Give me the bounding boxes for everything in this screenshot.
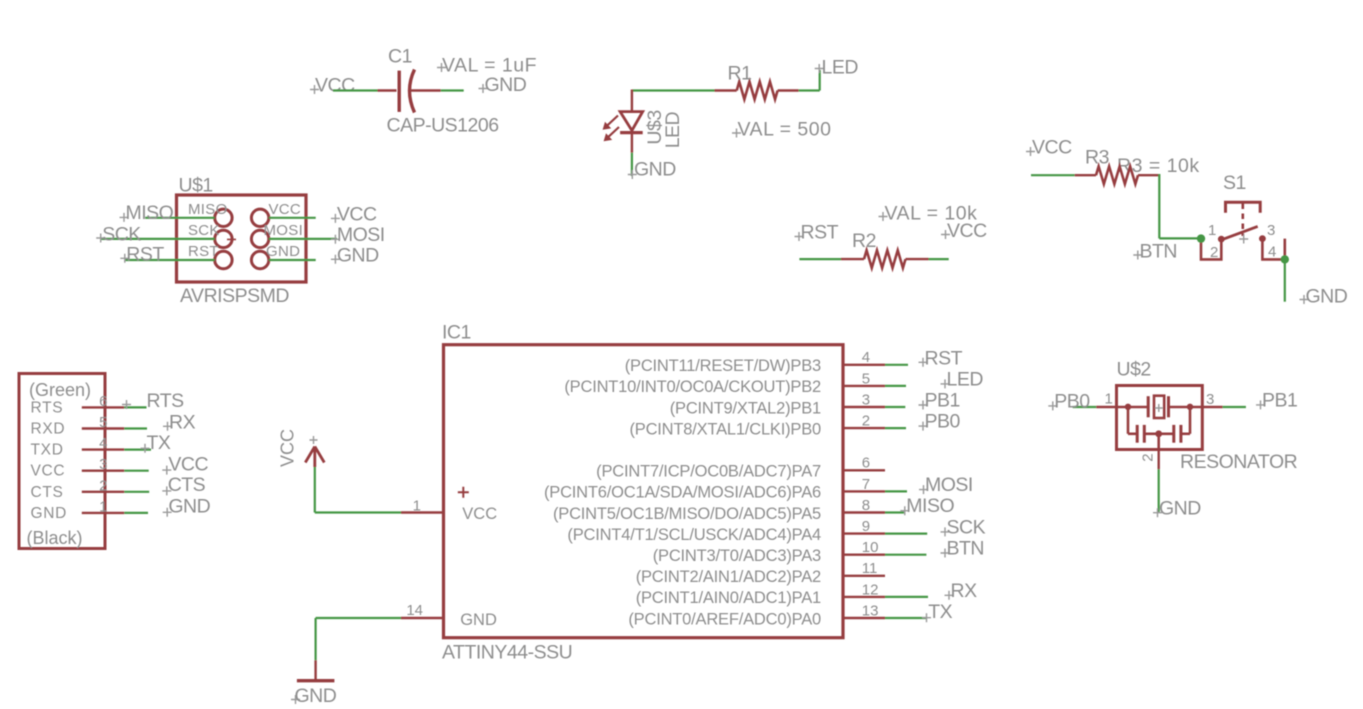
wire VCC to IC1 pin1: [315, 467, 401, 513]
connector U$1 body: [177, 195, 307, 282]
svg-text:7: 7: [862, 476, 870, 493]
wire IC1 pin 2: [885, 427, 906, 429]
pin number 3 (FTDI): [99, 456, 107, 473]
IC1 pin 11 stub: [843, 575, 885, 577]
pin number 1 (U$2): [1105, 391, 1113, 408]
svg-text:3: 3: [1206, 391, 1214, 408]
IC1 pin 10 stub: [843, 554, 885, 556]
svg-text:13: 13: [862, 602, 879, 619]
U$1 pad circle left 2: [215, 230, 232, 247]
net label LED (R1 right): [815, 57, 859, 79]
resistor R2: [841, 250, 929, 268]
capacitor C1: [378, 70, 441, 113]
label ATTINY44-SSU: [442, 642, 572, 664]
wire FTDI pin 3: [124, 470, 148, 472]
net label LED (IC1): [941, 368, 984, 390]
svg-text:VCC: VCC: [269, 201, 302, 218]
FTDI pin name GND: [31, 505, 68, 522]
svg-text:PB0: PB0: [1054, 390, 1090, 412]
U$2 pin 1 stub: [1096, 406, 1116, 408]
wire IC1 pin 10: [885, 554, 926, 556]
svg-text:VCC: VCC: [168, 453, 208, 475]
svg-text:VCC: VCC: [278, 429, 298, 467]
label U$3: [644, 110, 666, 144]
svg-text:AVRISPSMD: AVRISPSMD: [180, 285, 289, 307]
pin number 14 (IC1): [406, 602, 423, 619]
wire LED to GND: [631, 153, 633, 176]
net label SCK (IC1): [941, 516, 986, 538]
svg-text:1: 1: [1105, 391, 1113, 408]
svg-text:VCC: VCC: [315, 75, 355, 97]
FTDI pin name TXD: [31, 442, 64, 459]
pin number 5 (FTDI): [99, 414, 107, 431]
IC1 pin 4 stub: [843, 364, 885, 366]
svg-text:VCC: VCC: [337, 203, 377, 225]
wire IC1 pin 9: [885, 532, 927, 534]
S1 pin1-2 link: [1201, 239, 1221, 260]
U$1 pin name VCC: [269, 201, 302, 218]
svg-text:GND: GND: [168, 496, 210, 518]
svg-text:RX: RX: [951, 580, 978, 602]
pin number 7 (IC1): [862, 476, 870, 493]
net label GND (U$1): [331, 244, 379, 266]
wire U$2 to PB1: [1223, 406, 1246, 408]
U$1 pad circle right 2: [251, 230, 268, 247]
pin number 1 (S1): [1208, 222, 1216, 239]
svg-text:MISO: MISO: [126, 202, 174, 224]
svg-text:(PCINT3/T0/ADC3)PA3: (PCINT3/T0/ADC3)PA3: [653, 547, 821, 565]
svg-text:MOSI: MOSI: [337, 224, 385, 246]
pin number 11 (IC1): [862, 560, 878, 577]
wire R2 to VCC: [929, 258, 949, 260]
svg-text:4: 4: [862, 349, 870, 366]
IC1 pin name VCC: [458, 487, 497, 523]
pin number 1 (IC1): [413, 498, 421, 515]
svg-text:(PCINT11/RESET/DW)PB3: (PCINT11/RESET/DW)PB3: [625, 357, 821, 375]
U$1 pad circle left 3: [215, 251, 232, 268]
svg-text:GND: GND: [634, 159, 676, 181]
wire RST to R2: [799, 258, 841, 260]
FTDI pin 2 stub: [82, 491, 125, 493]
IC1 pin name PA0: [628, 610, 821, 628]
pin number 1 (FTDI): [99, 498, 107, 515]
resistor R3: [1075, 166, 1160, 184]
IC1 pin name PA5: [553, 505, 821, 523]
svg-text:VAL = 500: VAL = 500: [738, 119, 832, 141]
svg-text:VCC: VCC: [31, 463, 66, 480]
net label PB0 (U$2): [1048, 390, 1090, 412]
IC1 pin name PA3: [653, 547, 821, 565]
ground GND symbol: [297, 660, 335, 680]
svg-text:12: 12: [862, 581, 879, 598]
net label MISO (IC1): [900, 495, 954, 517]
FTDI pin 5 stub: [82, 427, 125, 429]
label R1: [728, 63, 752, 85]
FTDI pin 3 stub: [82, 470, 125, 472]
wire IC1 pin 13: [885, 617, 927, 619]
pin number 4 (IC1): [862, 349, 870, 366]
svg-text:6: 6: [99, 393, 107, 410]
IC1 pin 8 stub: [843, 511, 885, 513]
svg-text:4: 4: [99, 435, 107, 452]
label LED: [662, 111, 684, 148]
U$1 pad circle right 1: [251, 209, 268, 226]
svg-text:RESONATOR: RESONATOR: [1180, 451, 1298, 473]
wire S1 to GND: [1284, 259, 1286, 301]
svg-text:GND: GND: [31, 505, 68, 522]
FTDI pin 1 stub: [82, 512, 125, 514]
svg-text:SCK: SCK: [102, 223, 141, 245]
value VAL = 10k (R2): [879, 203, 978, 225]
svg-text:LED: LED: [662, 111, 684, 148]
svg-text:CAP-US1206: CAP-US1206: [387, 115, 499, 137]
U$1 pin name RST: [188, 243, 219, 260]
wire IC1 pin 4: [885, 364, 908, 366]
net label SCK (U$1): [96, 223, 141, 245]
svg-text:GND: GND: [337, 244, 379, 266]
LED U$3: [620, 90, 643, 153]
pin number 2 (S1): [1210, 244, 1218, 261]
pin number 4 (FTDI): [99, 435, 107, 452]
svg-text:GND: GND: [1306, 286, 1348, 308]
svg-text:RX: RX: [169, 411, 196, 433]
svg-text:VCC: VCC: [1032, 137, 1072, 159]
svg-text:MISO: MISO: [188, 201, 228, 218]
IC1 pin name PA4: [567, 526, 821, 544]
net label GND (LED): [628, 159, 676, 181]
wire R1 to LED label: [799, 70, 820, 91]
svg-text:RST: RST: [925, 347, 963, 369]
svg-text:10: 10: [862, 539, 879, 556]
wire IC1 pin 8: [885, 511, 904, 513]
svg-text:RST: RST: [126, 243, 164, 265]
wire PB0 to U$2: [1073, 406, 1097, 408]
IC1 pin name PA2: [636, 568, 821, 586]
pin number 13 (IC1): [862, 602, 879, 619]
connector FTDI body: [19, 374, 105, 549]
svg-text:4: 4: [1268, 244, 1276, 261]
svg-text:2: 2: [862, 413, 870, 430]
svg-text:MISO: MISO: [906, 495, 954, 517]
svg-text:GND: GND: [266, 243, 300, 260]
U$1 origin cross: [227, 235, 236, 244]
FTDI pin name RTS: [31, 399, 64, 416]
svg-text:GND: GND: [460, 611, 497, 629]
svg-text:TXD: TXD: [31, 442, 64, 459]
label GND (supply): [291, 685, 337, 707]
IC1 pin 13 stub: [843, 617, 885, 619]
svg-text:(PCINT9/XTAL2)PB1: (PCINT9/XTAL2)PB1: [670, 399, 821, 417]
value VAL = 1uF: [437, 55, 537, 77]
U$1 pad circle left 1: [215, 209, 232, 226]
net label GND (FTDI): [163, 496, 211, 518]
svg-text:(PCINT1/AIN0/ADC1)PA1: (PCINT1/AIN0/ADC1)PA1: [636, 589, 821, 607]
IC1 pin 9 stub: [843, 532, 885, 534]
FTDI pin 4 stub: [82, 448, 125, 450]
U$1 pin name MOSI: [264, 222, 304, 239]
svg-text:(Green): (Green): [29, 380, 91, 400]
svg-text:1: 1: [99, 498, 107, 515]
pin number 12 (IC1): [862, 581, 879, 598]
svg-text:SCK: SCK: [188, 222, 220, 239]
label U$1: [179, 175, 213, 197]
wire LED node: [632, 89, 715, 91]
S1 pin3-4 link: [1262, 239, 1284, 260]
label (Green): [29, 380, 91, 400]
wire IC1 pin14 to GND: [316, 618, 401, 660]
wire C1 to GND: [441, 89, 464, 91]
IC1 pin name PB0: [629, 420, 821, 438]
net label RST (R2 left): [795, 222, 839, 244]
wire VCC to R3: [1031, 174, 1075, 176]
junction BTN (S1 pin1): [1197, 234, 1205, 242]
wire RST to U$1: [125, 259, 215, 261]
wire VCC to C1: [333, 89, 378, 91]
junction GND (S1 pin4): [1281, 255, 1289, 263]
net label TX (FTDI): [141, 432, 171, 454]
svg-text:BTN: BTN: [1140, 241, 1178, 263]
net label CTS (FTDI): [162, 474, 205, 496]
switch S1 contact: [1218, 226, 1266, 242]
net label GND (C1 right): [479, 74, 527, 96]
wire R3 to BTN node: [1159, 174, 1201, 238]
svg-text:VCC: VCC: [947, 220, 987, 242]
net label VCC (U$1): [331, 203, 377, 225]
label RESONATOR: [1180, 451, 1298, 473]
resonator U$2 body: [1117, 386, 1203, 450]
svg-text:R3: R3: [1085, 147, 1109, 169]
label C1: [388, 46, 412, 68]
U$2 pin 3 stub: [1202, 406, 1222, 408]
IC1 pin name PA6: [544, 484, 821, 502]
svg-text:5: 5: [99, 414, 107, 431]
label CAP-US1206: [387, 115, 499, 137]
FTDI pin 6 stub: [82, 406, 125, 408]
net label RST (U$1): [120, 243, 164, 265]
net label RX (IC1): [945, 580, 978, 602]
svg-text:5: 5: [862, 370, 870, 387]
svg-text:(PCINT0/AREF/ADC0)PA0: (PCINT0/AREF/ADC0)PA0: [628, 610, 821, 628]
label R2: [852, 230, 876, 252]
wire U$1 to MOSI: [269, 238, 337, 240]
net label BTN: [1133, 241, 1177, 263]
IC1 pin 2 stub: [843, 427, 885, 429]
pin number 6 (IC1): [862, 455, 870, 472]
svg-text:RST: RST: [188, 243, 219, 260]
svg-text:MOSI: MOSI: [925, 474, 973, 496]
U$2 pin 2 stub: [1157, 450, 1159, 470]
svg-text:3: 3: [862, 391, 870, 408]
IC1 pin name PB3: [625, 357, 821, 375]
svg-text:(Black): (Black): [27, 528, 83, 548]
svg-text:RTS: RTS: [147, 390, 185, 412]
value VAL = 500 (R1): [732, 119, 831, 141]
label (Black): [27, 528, 83, 548]
svg-text:U$2: U$2: [1117, 359, 1151, 381]
U$1 pad circle right 3: [251, 251, 268, 268]
net label MOSI (U$1): [331, 224, 385, 246]
label VCC (supply): [278, 429, 298, 467]
net label VCC (C1 left): [310, 75, 355, 97]
wire FTDI pin 2: [124, 491, 149, 493]
pin number 2 (FTDI): [99, 477, 107, 494]
FTDI pin name VCC: [31, 463, 66, 480]
svg-text:11: 11: [862, 560, 878, 577]
pin number 6 (FTDI): [99, 393, 107, 410]
svg-text:(PCINT7/ICP/OC0B/ADC7)PA7: (PCINT7/ICP/OC0B/ADC7)PA7: [596, 463, 821, 481]
supply VCC symbol: [305, 436, 324, 467]
net label GND (U$2): [1153, 498, 1201, 520]
wire U$2 to GND: [1158, 469, 1160, 512]
svg-text:MOSI: MOSI: [264, 222, 304, 239]
svg-text:2: 2: [99, 477, 107, 494]
svg-text:LED: LED: [947, 368, 984, 390]
IC1 pin 5 stub: [843, 385, 885, 387]
net label PB0 (IC1): [919, 411, 961, 433]
svg-text:IC1: IC1: [442, 322, 471, 344]
IC1 pin name GND: [460, 611, 497, 629]
svg-text:(PCINT8/XTAL1/CLKI)PB0: (PCINT8/XTAL1/CLKI)PB0: [629, 420, 821, 438]
wire IC1 pin 5: [885, 385, 906, 387]
pin number 9 (IC1): [862, 518, 870, 535]
net label TX (IC1): [922, 601, 953, 623]
wire U$1 to VCC: [269, 217, 316, 219]
svg-text:CTS: CTS: [31, 484, 64, 501]
svg-text:ATTINY44-SSU: ATTINY44-SSU: [442, 642, 572, 664]
S1 origin cross: [1239, 235, 1248, 244]
svg-text:TX: TX: [928, 601, 952, 623]
wire FTDI pin 5: [124, 427, 147, 429]
U$1 pin name SCK: [188, 222, 220, 239]
IC1 pin 3 stub: [843, 406, 885, 408]
wire FTDI pin 4: [124, 449, 151, 451]
IC1 pin 14 stub: [401, 617, 444, 619]
svg-text:(PCINT2/AIN1/ADC2)PA2: (PCINT2/AIN1/ADC2)PA2: [636, 568, 821, 586]
wire FTDI pin 1: [124, 512, 148, 514]
wire IC1 pin 7: [885, 490, 907, 492]
svg-text:C1: C1: [388, 46, 412, 68]
label U$2: [1117, 359, 1151, 381]
FTDI pin name CTS: [31, 484, 64, 501]
label AVRISPSMD: [180, 285, 289, 307]
svg-text:6: 6: [862, 455, 870, 472]
IC1 pin name PA7: [596, 463, 821, 481]
value R3 = 10k: [1117, 155, 1200, 177]
label R3: [1085, 147, 1109, 169]
FTDI pin name RXD: [31, 421, 66, 438]
pin number 4 (S1): [1268, 244, 1276, 261]
svg-text:3: 3: [99, 456, 107, 473]
svg-text:VCC: VCC: [462, 505, 497, 523]
svg-text:PB1: PB1: [925, 390, 960, 412]
svg-text:LED: LED: [822, 57, 859, 79]
net label GND (S1): [1300, 286, 1348, 308]
pin number 3 (IC1): [862, 391, 870, 408]
label S1: [1223, 172, 1246, 194]
svg-text:GND: GND: [295, 685, 337, 707]
IC1 pin 1 stub: [401, 511, 444, 513]
IC1 pin 7 stub: [843, 490, 885, 492]
wire U$1 to GND: [269, 259, 316, 261]
wire IC1 pin 12: [885, 596, 928, 598]
IC IC1 body: [444, 345, 844, 638]
svg-text:1: 1: [1208, 222, 1216, 239]
net label PB1 (IC1): [919, 390, 960, 412]
svg-text:SCK: SCK: [947, 516, 986, 538]
pin number 3 (U$2): [1206, 391, 1214, 408]
resistor R1: [715, 82, 799, 100]
net label RTS (FTDI): [122, 390, 184, 412]
svg-text:8: 8: [862, 497, 870, 514]
net label VCC (FTDI): [162, 453, 208, 475]
svg-text:PB0: PB0: [925, 411, 961, 433]
svg-text:3: 3: [1267, 222, 1275, 239]
svg-text:(PCINT4/T1/SCL/USCK/ADC4)PA4: (PCINT4/T1/SCL/USCK/ADC4)PA4: [567, 526, 821, 544]
svg-text:GND: GND: [1159, 498, 1201, 520]
svg-text:RXD: RXD: [31, 421, 66, 438]
U$2 crystal: [1117, 396, 1203, 418]
pin number 10 (IC1): [862, 539, 879, 556]
LED arrows: [603, 116, 619, 142]
net label MISO (U$1): [120, 202, 174, 224]
wire SCK to U$1: [100, 238, 215, 240]
pin number 2 (IC1): [862, 413, 870, 430]
svg-text:9: 9: [862, 518, 870, 535]
svg-text:PB1: PB1: [1262, 389, 1297, 411]
svg-text:U$1: U$1: [179, 175, 213, 197]
svg-text:14: 14: [406, 602, 423, 619]
svg-text:S1: S1: [1223, 172, 1246, 194]
svg-text:GND: GND: [485, 74, 527, 96]
svg-text:2: 2: [1210, 244, 1218, 261]
svg-text:BTN: BTN: [947, 538, 985, 560]
wire MISO to U$1: [145, 217, 215, 219]
switch S1 actuator: [1226, 202, 1261, 236]
U$1 pin name MISO: [188, 201, 228, 218]
IC1 pin name PB1: [670, 399, 821, 417]
IC1 pin name PB2: [564, 378, 821, 396]
U$1 pin name GND: [266, 243, 300, 260]
svg-text:1: 1: [413, 498, 421, 515]
pin number 2 (U$2): [1140, 453, 1157, 461]
net label RST (IC1): [919, 347, 963, 369]
wire FTDI pin 6: [124, 406, 146, 408]
label IC1: [442, 322, 471, 344]
IC1 pin 12 stub: [843, 596, 885, 598]
net label BTN (IC1): [941, 538, 985, 560]
svg-text:RTS: RTS: [31, 399, 64, 416]
svg-text:(PCINT6/OC1A/SDA/MOSI/ADC6)PA6: (PCINT6/OC1A/SDA/MOSI/ADC6)PA6: [544, 484, 821, 502]
net label PB1 (U$2): [1256, 389, 1297, 411]
net label RX (FTDI): [163, 411, 196, 433]
net label VCC (R2 right): [941, 220, 987, 242]
svg-text:(PCINT5/OC1B/MISO/DO/ADC5)PA5: (PCINT5/OC1B/MISO/DO/ADC5)PA5: [553, 505, 821, 523]
IC1 pin name PA1: [636, 589, 821, 607]
IC1 pin 6 stub: [843, 469, 885, 471]
svg-text:R2: R2: [852, 230, 876, 252]
svg-text:R1: R1: [728, 63, 752, 85]
svg-text:RST: RST: [801, 222, 839, 244]
pin number 8 (IC1): [862, 497, 870, 514]
svg-text:(PCINT10/INT0/OC0A/CKOUT)PB2: (PCINT10/INT0/OC0A/CKOUT)PB2: [564, 378, 821, 396]
svg-text:TX: TX: [147, 432, 171, 454]
wire IC1 pin 3: [885, 406, 905, 408]
pin number 3 (S1): [1267, 222, 1275, 239]
U$2 internal caps: [1125, 404, 1193, 450]
net label MOSI (IC1): [919, 474, 973, 496]
svg-text:2: 2: [1140, 453, 1157, 461]
net label VCC (R3 left): [1026, 137, 1072, 159]
